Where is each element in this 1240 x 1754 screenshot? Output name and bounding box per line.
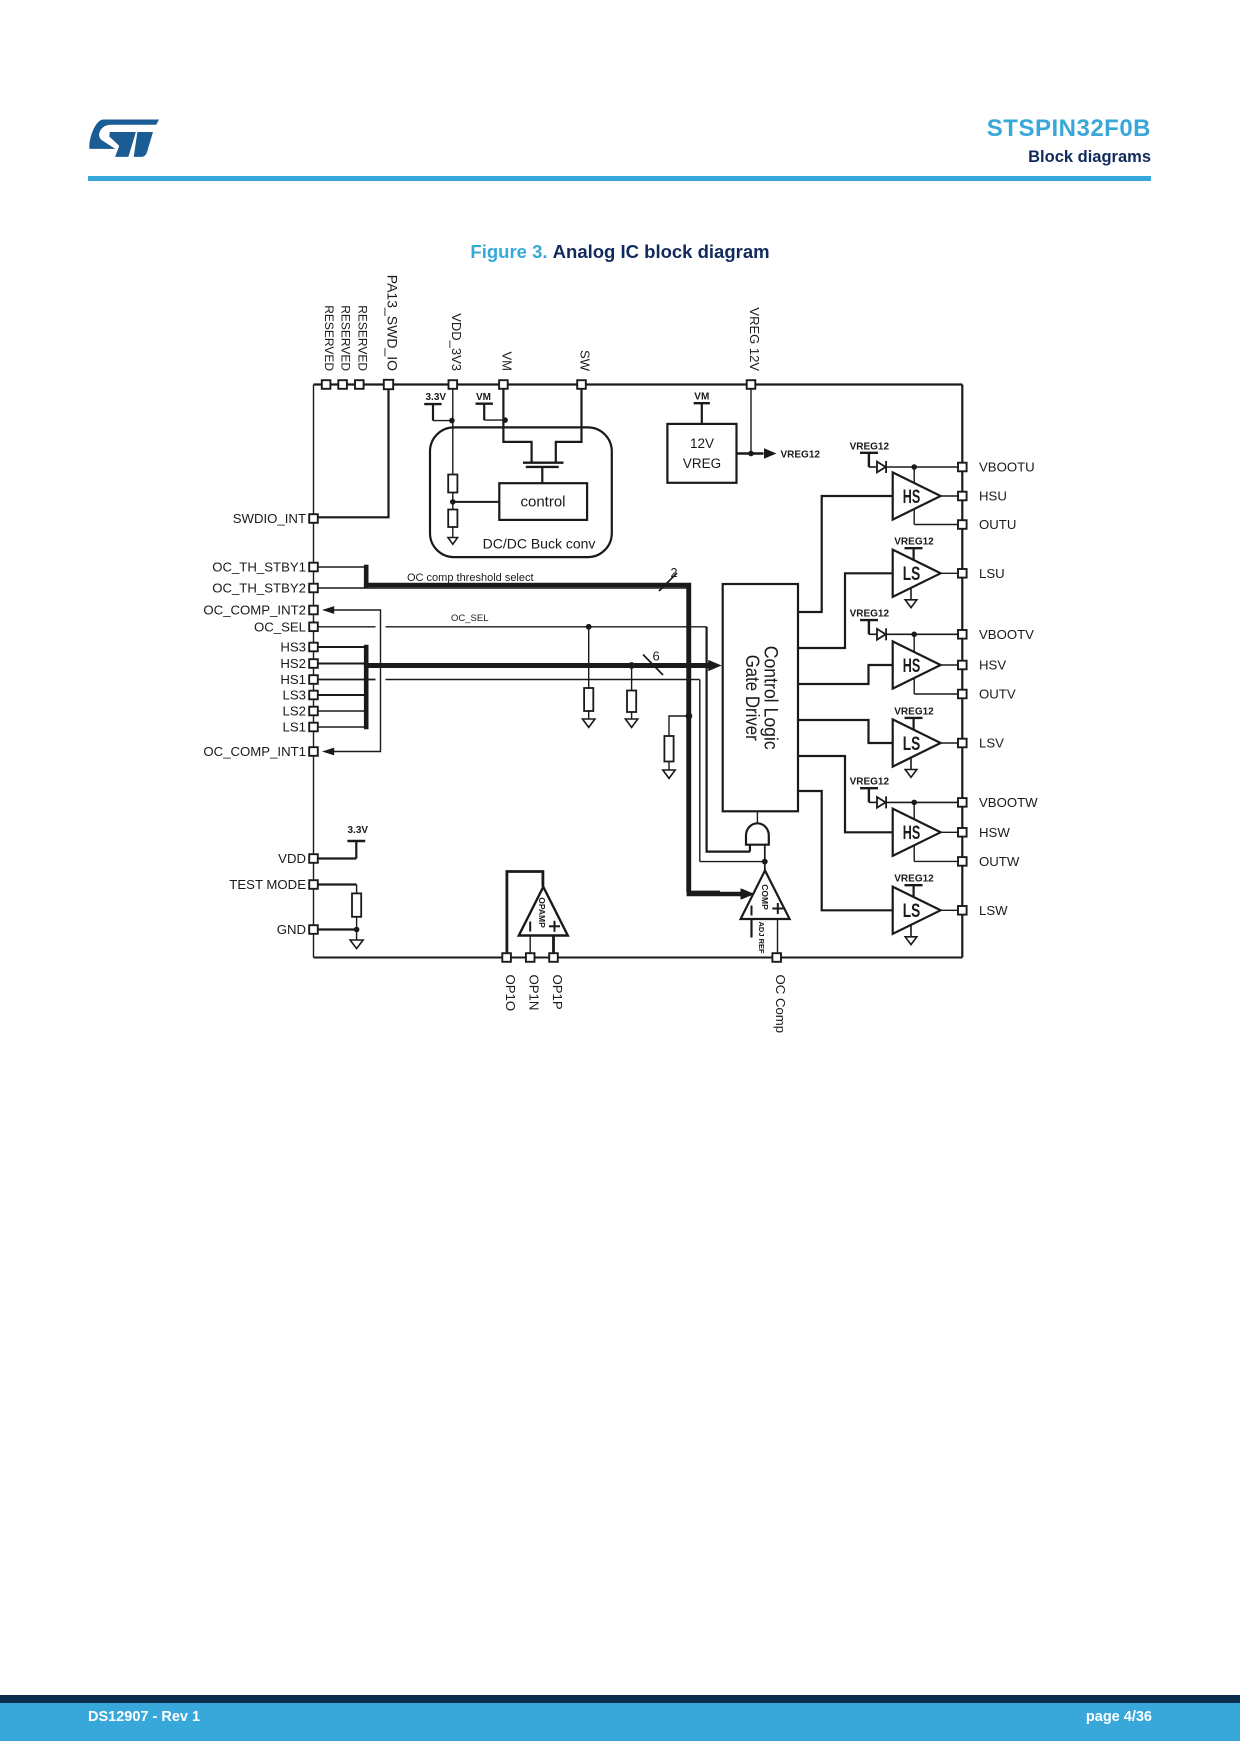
- pin OUTU (right): [958, 517, 1016, 532]
- pin VBOOTU (right): [958, 460, 1035, 475]
- svg-text:HS: HS: [903, 823, 921, 844]
- gate driver HS U: [893, 472, 941, 519]
- wire LS3 stub: [318, 694, 365, 696]
- node comparator output junction: [762, 859, 768, 865]
- svg-text:OP1O: OP1O: [503, 975, 518, 1012]
- bus width slash 6: [643, 649, 663, 676]
- svg-text:RESERVED: RESERVED: [322, 305, 336, 371]
- svg-text:SW: SW: [578, 350, 593, 372]
- wire OP1N input stub: [529, 936, 531, 958]
- svg-text:Gate Driver: Gate Driver: [741, 655, 762, 742]
- block DC/DC Buck converter: [430, 427, 612, 557]
- pin SWDIO_INT (left): [233, 511, 318, 526]
- svg-text:3.3V: 3.3V: [348, 825, 369, 836]
- svg-text:HSU: HSU: [979, 489, 1007, 504]
- supply VREG12 for LS V: [894, 706, 934, 730]
- supply VM (vreg): [694, 391, 710, 424]
- node bootstrap junction U: [911, 464, 917, 470]
- wire LS2 stub: [318, 710, 365, 712]
- wire SW pin to pass transistor: [556, 388, 582, 462]
- wire VREG 12V pin to output: [750, 388, 752, 454]
- supply VREG12 for LS U: [894, 537, 934, 561]
- pin LSW (right): [958, 903, 1008, 918]
- resistor pull-down on bus: [627, 666, 636, 720]
- wire OC_TH_STBY1 stub: [318, 566, 365, 568]
- block buck control: [499, 483, 587, 520]
- ground LS W: [905, 925, 917, 944]
- bus join vertical for HS/LS signals: [364, 645, 369, 729]
- svg-text:OC_SEL: OC_SEL: [254, 620, 306, 635]
- svg-text:HS1: HS1: [280, 672, 306, 687]
- pin VBOOTW (right): [958, 795, 1038, 810]
- svg-text:VDD_3V3: VDD_3V3: [449, 313, 464, 371]
- op-amp OPAMP: [507, 872, 568, 958]
- diode bootstrap DU: [877, 461, 886, 473]
- svg-text:VREG12: VREG12: [894, 874, 934, 885]
- svg-text:HS: HS: [903, 656, 921, 677]
- diode bootstrap DV: [877, 628, 886, 640]
- wire VBOOTU line: [886, 466, 958, 468]
- pin OC_TH_STBY2 (left): [212, 581, 318, 596]
- svg-text:DC/DC Buck conv: DC/DC Buck conv: [483, 536, 596, 552]
- svg-text:HS: HS: [903, 487, 921, 508]
- wire VDD_3V3 into buck divider: [452, 388, 454, 475]
- pin HS2 (left): [280, 656, 317, 671]
- wire VM pin to pass transistor: [503, 388, 531, 462]
- svg-text:COMP: COMP: [760, 884, 770, 910]
- bus width slash 2: [659, 566, 678, 591]
- svg-text:VREG12: VREG12: [894, 706, 934, 717]
- wire bootstrap through HS W to OUTW: [914, 802, 958, 861]
- wire gate drive LSV from control logic: [798, 720, 893, 743]
- wire TEST MODE pull-down: [318, 885, 357, 894]
- block 12V VREG: [667, 424, 736, 483]
- svg-text:LSU: LSU: [979, 566, 1005, 581]
- svg-text:ADJ REF: ADJ REF: [757, 922, 766, 955]
- svg-text:LS1: LS1: [283, 720, 306, 735]
- svg-text:RESERVED: RESERVED: [339, 305, 353, 371]
- pin PA13_SWD_IO (top): [384, 275, 401, 389]
- node junction on VM line: [502, 417, 508, 423]
- resistor buck divider upper: [448, 475, 457, 510]
- wire HS1 run to comparator node: [318, 680, 764, 862]
- svg-text:OUTW: OUTW: [979, 854, 1020, 869]
- bus 6-wire to gate driver (thick): [364, 660, 722, 671]
- svg-text:OC_TH_STBY2: OC_TH_STBY2: [212, 581, 306, 596]
- svg-text:OC comp threshold select: OC comp threshold select: [407, 572, 534, 584]
- resistor hanging from threshold bus: [664, 716, 689, 770]
- svg-text:OC_SEL: OC_SEL: [451, 613, 489, 624]
- pin OC_SEL (left): [254, 620, 318, 635]
- pin LSU (right): [958, 566, 1005, 581]
- node junction on OC_SEL: [586, 624, 592, 630]
- gate driver HS W: [893, 809, 941, 856]
- svg-text:GND: GND: [277, 922, 306, 937]
- node GND junction: [354, 927, 360, 933]
- supply VREG12 for HS W bootstrap: [850, 777, 890, 803]
- svg-text:VREG12: VREG12: [850, 777, 890, 788]
- svg-text:VREG12: VREG12: [850, 609, 890, 620]
- svg-text:LS: LS: [903, 734, 921, 755]
- wire gate drive LSU from control logic: [798, 573, 893, 648]
- wire HSW output to pin: [941, 831, 959, 833]
- chip boundary (analog IC outline): [314, 385, 963, 958]
- svg-text:2: 2: [671, 566, 678, 580]
- svg-text:VREG: VREG: [683, 456, 721, 471]
- node bootstrap junction V: [911, 632, 917, 638]
- svg-text:OC_COMP_INT2: OC_COMP_INT2: [203, 603, 306, 618]
- ADJ REF stub on comparator: [752, 919, 766, 954]
- svg-text:OPAMP: OPAMP: [537, 897, 547, 928]
- arrowhead threshold-select into comparator: [742, 889, 755, 900]
- pin VDD_3V3 (top): [449, 313, 464, 389]
- wire VREG12 output arrow: [737, 448, 777, 458]
- svg-text:LS: LS: [903, 901, 921, 922]
- pin HSU (right): [958, 489, 1007, 504]
- wire VBOOTV line: [886, 633, 958, 635]
- wire divider tap to control: [453, 501, 500, 503]
- transistor buck pass MOSFET: [523, 463, 564, 484]
- svg-text:HSV: HSV: [979, 658, 1006, 673]
- node junction on VDD_3V3 line: [449, 418, 455, 424]
- svg-text:RESERVED: RESERVED: [355, 305, 369, 371]
- svg-text:VREG12: VREG12: [850, 441, 890, 452]
- svg-text:VM: VM: [476, 392, 491, 403]
- wire LS1 stub: [318, 726, 365, 728]
- svg-text:VREG12: VREG12: [781, 449, 821, 460]
- node junction on 6-wire bus: [628, 662, 635, 669]
- svg-text:LS: LS: [903, 564, 921, 585]
- wire HS2 stub: [318, 663, 365, 665]
- pin RESERVED (top): [338, 305, 352, 389]
- wire gate drive LSW from control logic: [798, 791, 893, 910]
- supply VM (buck): [476, 392, 506, 420]
- label VREG12 net: [781, 449, 821, 460]
- bus 2-wire OC comp threshold select (thick): [364, 565, 754, 900]
- supply VREG12 for HS V bootstrap: [850, 609, 890, 635]
- pin OC_COMP_INT2 (left): [203, 603, 317, 618]
- diode bootstrap DW: [877, 796, 886, 808]
- wire bootstrap through HS U to OUTU: [914, 467, 958, 525]
- wire LSV output to pin: [941, 742, 959, 744]
- pin LS2 (left): [283, 704, 318, 719]
- node junction VREG12 output: [748, 451, 754, 457]
- wire VBOOTW line: [886, 801, 958, 803]
- pin OP1P (bottom): [549, 953, 565, 1010]
- svg-text:VREG 12V: VREG 12V: [747, 307, 762, 371]
- node junction on threshold bus vertical: [686, 713, 693, 720]
- svg-text:PA13_SWD_IO: PA13_SWD_IO: [385, 275, 401, 371]
- ground buck divider: [448, 538, 458, 545]
- svg-text:VDD: VDD: [278, 851, 306, 866]
- pin VBOOTV (right): [958, 627, 1034, 642]
- pin OP1N (bottom): [526, 953, 542, 1010]
- pin OUTV (right): [958, 687, 1016, 702]
- svg-text:VM: VM: [694, 391, 709, 402]
- gate driver LS V: [893, 719, 941, 766]
- pin OP1O (bottom): [502, 953, 518, 1011]
- svg-text:HS2: HS2: [280, 656, 306, 671]
- svg-text:VBOOTU: VBOOTU: [979, 460, 1035, 475]
- wire LSW output to pin: [941, 909, 959, 911]
- wire OC_SEL run: [318, 627, 751, 852]
- pin GND (left): [277, 922, 318, 937]
- ground below OC_SEL resistor: [583, 719, 595, 727]
- wire bootstrap through HS V to OUTV: [914, 634, 958, 694]
- ground LS V: [905, 758, 917, 777]
- block U1 Control Logic / Gate Driver: [723, 584, 798, 811]
- pin RESERVED (top): [355, 305, 369, 389]
- pin HSV (right): [958, 658, 1006, 673]
- node bootstrap junction W: [911, 800, 917, 806]
- svg-text:VBOOTV: VBOOTV: [979, 627, 1034, 642]
- pin OC_COMP_INT1 (left): [203, 744, 317, 759]
- resistor buck divider lower: [448, 510, 457, 538]
- svg-text:VBOOTW: VBOOTW: [979, 795, 1038, 810]
- resistor pull-down on OC_SEL: [584, 627, 593, 719]
- pin RESERVED (top): [322, 305, 336, 389]
- pin VREG 12V (top): [747, 307, 762, 388]
- pin OC_TH_STBY1 (left): [212, 560, 318, 575]
- node divider tap junction: [450, 499, 456, 505]
- wire LSU output to pin: [941, 572, 959, 574]
- resistor TEST MODE pull-down: [352, 893, 361, 929]
- wire OC_TH_STBY2 thin run: [318, 588, 721, 891]
- svg-text:SWDIO_INT: SWDIO_INT: [233, 511, 306, 526]
- svg-text:VM: VM: [499, 352, 514, 372]
- pin OC Comp (bottom): [772, 953, 788, 1033]
- svg-text:OUTU: OUTU: [979, 517, 1016, 532]
- comparator COMP (overcurrent): [741, 862, 790, 919]
- AND gate between control logic and comparator: [746, 811, 769, 861]
- wire gate drive HSV from control logic: [798, 665, 893, 684]
- pin LS3 (left): [283, 688, 318, 703]
- label OC comp threshold select: [407, 572, 534, 584]
- svg-text:LSV: LSV: [979, 736, 1004, 751]
- svg-text:LS3: LS3: [283, 688, 306, 703]
- wire HSU output to pin: [941, 495, 959, 497]
- svg-text:OC Comp: OC Comp: [773, 975, 788, 1034]
- pin HS1 (left): [280, 672, 317, 687]
- supply 3.3V (buck feedback): [424, 392, 452, 421]
- svg-text:12V: 12V: [690, 436, 714, 451]
- pin LSV (right): [958, 736, 1004, 751]
- supply VREG12 for HS U bootstrap: [850, 441, 890, 467]
- pin HSW (right): [958, 825, 1010, 840]
- svg-text:LS2: LS2: [283, 704, 306, 719]
- wire HSV output to pin: [941, 664, 959, 666]
- svg-text:HSW: HSW: [979, 825, 1010, 840]
- gate driver HS V: [893, 641, 941, 688]
- svg-text:OUTV: OUTV: [979, 687, 1016, 702]
- supply 3.3V at VDD pin: [318, 825, 369, 859]
- svg-text:VREG12: VREG12: [894, 537, 934, 548]
- ST logo: [89, 119, 160, 159]
- svg-text:OP1N: OP1N: [527, 975, 542, 1011]
- wire HS3 stub: [318, 646, 365, 648]
- svg-text:OP1P: OP1P: [550, 975, 565, 1010]
- pin HS3 (left): [280, 640, 317, 655]
- gate driver LS U: [893, 550, 941, 597]
- ground LS U: [905, 588, 917, 607]
- pin VM (top): [499, 352, 514, 389]
- pin TEST MODE (left): [229, 877, 318, 892]
- label OC_SEL: [451, 613, 489, 624]
- svg-text:6: 6: [653, 649, 660, 664]
- pin VDD (left): [278, 851, 318, 866]
- pin SW (top): [577, 350, 592, 389]
- wire gate drive HSW from control logic: [798, 756, 893, 832]
- wire GND pin: [318, 928, 357, 930]
- svg-text:HS3: HS3: [280, 640, 306, 655]
- ground below bus resistor: [625, 719, 637, 727]
- svg-text:TEST MODE: TEST MODE: [229, 877, 306, 892]
- supply VREG12 for LS W: [894, 874, 934, 898]
- pin LS1 (left): [283, 720, 318, 735]
- svg-text:control: control: [520, 494, 565, 511]
- wire OC_COMP_INT2 / OC_COMP_INT1 from comparator: [322, 606, 381, 755]
- svg-text:3.3V: 3.3V: [426, 392, 447, 403]
- ground symbol at GND: [350, 930, 363, 949]
- wire PA13_SWD_IO to SWDIO_INT: [318, 388, 389, 517]
- pin OUTW (right): [958, 854, 1020, 869]
- svg-text:OC_COMP_INT1: OC_COMP_INT1: [203, 744, 306, 759]
- gate driver LS W: [893, 887, 941, 934]
- svg-text:OC_TH_STBY1: OC_TH_STBY1: [212, 560, 306, 575]
- wire gate drive HSU from control logic: [798, 496, 893, 612]
- wire comparator output to OC Comp pin: [777, 919, 779, 958]
- wire OP1P input stub: [552, 936, 555, 958]
- svg-text:LSW: LSW: [979, 903, 1008, 918]
- ground below threshold-bus resistor: [663, 770, 675, 778]
